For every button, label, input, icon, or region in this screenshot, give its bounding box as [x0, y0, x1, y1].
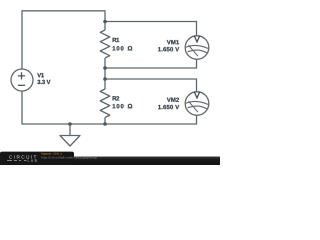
- voltmeter VM1: [185, 36, 209, 60]
- watermark logo text CIRCUIT: [9, 155, 36, 158]
- wire: R2 bottom stub: [104, 118, 106, 125]
- value 100 (digits): [113, 104, 124, 108]
- wire: R1 top stub: [104, 22, 106, 31]
- wire: node A right to VM1 top: [105, 22, 197, 36]
- resistor R1: [100, 30, 110, 58]
- value 1.650 V: [158, 105, 179, 109]
- value 100 (digits): [113, 46, 124, 50]
- watermark url text: [41, 156, 97, 159]
- watermark logo block: [0, 152, 74, 165]
- voltmeter VM2: [185, 92, 209, 116]
- label R1: [113, 38, 120, 42]
- label R2: [113, 96, 120, 100]
- watermark logo text LAB: [28, 159, 37, 161]
- label VM1: [167, 40, 179, 44]
- voltage source V1: [11, 69, 33, 91]
- value 1.650 V: [158, 47, 179, 51]
- label V1: [37, 73, 44, 77]
- wire: V1 bottom, across bottom, up to VM2 bottom: [22, 91, 197, 124]
- wire: node B vertical link: [104, 68, 106, 79]
- watermark logo dashes: [7, 160, 27, 162]
- resistor R2: [100, 89, 110, 118]
- label VM2: [167, 98, 179, 102]
- node B junction dot (R1 bottom): [103, 66, 107, 70]
- value ohm sign: [128, 46, 132, 50]
- value 3.3 V: [37, 80, 50, 84]
- wire: R1 bottom stub: [104, 58, 106, 68]
- ground: [60, 124, 80, 146]
- watermark title text: [41, 153, 62, 156]
- node B junction dot (R2 top): [103, 77, 107, 81]
- wire: node B right to VM1 bottom: [105, 59, 197, 68]
- node C junction dot (ground tap): [68, 122, 72, 126]
- node C junction dot (R2 bottom): [103, 122, 107, 126]
- wire: R2 top stub: [104, 79, 106, 89]
- wire: V1 top up and right to R1 column: [22, 11, 105, 69]
- wire: node B right to VM2 top: [105, 79, 197, 92]
- value ohm sign: [128, 104, 132, 108]
- node A junction dot (R1 top): [103, 20, 107, 24]
